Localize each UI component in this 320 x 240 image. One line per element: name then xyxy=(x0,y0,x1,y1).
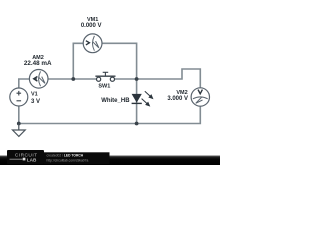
svg-text:LAB: LAB xyxy=(27,157,37,162)
svg-text:3.000 V: 3.000 V xyxy=(167,96,188,102)
svg-text:22.48 mA: 22.48 mA xyxy=(24,60,52,67)
svg-text:0.000 V: 0.000 V xyxy=(81,23,102,29)
svg-text:created02 / LED TORCH: created02 / LED TORCH xyxy=(47,153,84,157)
svg-text:3 V: 3 V xyxy=(31,99,40,105)
svg-text:http://circuitlab.com/c9ka07a: http://circuitlab.com/c9ka07a xyxy=(47,158,89,162)
svg-text:White_HB: White_HB xyxy=(101,98,130,104)
svg-text:SW1: SW1 xyxy=(98,83,110,89)
svg-text:V1: V1 xyxy=(31,92,38,98)
svg-text:VM1: VM1 xyxy=(87,17,98,23)
